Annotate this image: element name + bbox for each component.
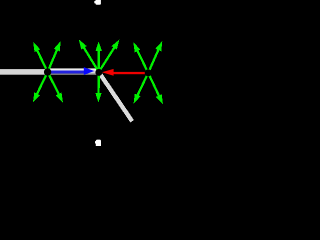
center node dot: [95, 69, 102, 76]
right node arrow down-left: [134, 73, 149, 104]
red arrow shaft: [114, 72, 147, 74]
left node arrow down-left: [33, 72, 48, 103]
left node dot: [44, 68, 51, 75]
right node arrow down-right: [148, 73, 163, 105]
red arrow head: [102, 69, 114, 76]
left node arrow up-right: [48, 41, 61, 72]
center node arrow up: [96, 41, 102, 72]
center node arrow down: [95, 72, 101, 103]
white mark top edge: [96, 0, 101, 5]
left node arrow down-right: [48, 72, 63, 103]
white mark top edge left bump: [94, 1, 95, 4]
white mark bottom edge left bump: [95, 141, 96, 144]
center node arrow up-right: [99, 40, 120, 73]
gray diagonal bar: [100, 73, 133, 121]
blue arrow shaft: [48, 71, 84, 74]
right node dot: [145, 69, 152, 76]
center node arrow up-left: [79, 39, 99, 72]
right node arrow up-left: [133, 42, 148, 73]
left node arrow up-left: [33, 42, 47, 72]
gray horizontal track bar: [0, 69, 99, 75]
white mark bottom edge: [96, 140, 101, 147]
blue arrow head: [84, 67, 94, 75]
right node arrow up-right: [148, 41, 162, 73]
gray track shadow line below blue arrow: [48, 74, 97, 75]
gray track highlight above blue arrow: [48, 68, 97, 70]
